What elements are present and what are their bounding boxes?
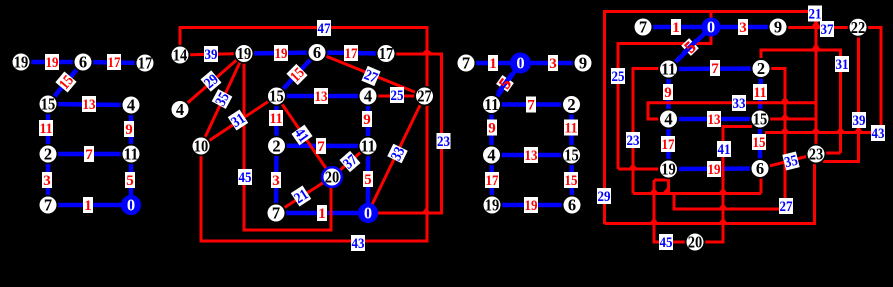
svg-text:6: 6 (313, 43, 321, 62)
svg-text:27: 27 (417, 87, 432, 106)
wire: graph3 blue edge 4-19 (489, 155, 494, 205)
svg-text:43: 43 (872, 126, 885, 142)
graph1 edge label 17 (6-17) (107, 54, 121, 71)
graph2 blue edge label 19 (19-6) (274, 45, 288, 62)
svg-text:19: 19 (275, 46, 288, 62)
graph2 red edge label 45 (238, 169, 252, 186)
graph4 red edge label 35 (782, 152, 800, 172)
node 19 (graph1) (12, 53, 31, 72)
node 2 (graph1) (39, 145, 58, 164)
graph2 red edge label 43 (351, 235, 365, 252)
wire: graph4 red horizontal channel y=132.5 to 15 (765, 131, 881, 134)
wire: graph1 blue edge 11-0 (129, 154, 134, 205)
graph2 blue edge label 9 (4-11) (362, 111, 372, 128)
svg-text:25: 25 (391, 88, 404, 104)
svg-text:9: 9 (363, 112, 371, 128)
wire: graph4 red edge 11 routed (label 23) (633, 69, 659, 194)
graph2 blue edge label 15 (6-15) (286, 64, 308, 86)
wire: graph4 blue edge 4-19 (666, 119, 671, 169)
node 19 (graph2) (235, 44, 254, 63)
svg-text:7: 7 (317, 139, 325, 155)
svg-text:17: 17 (379, 44, 394, 63)
wire: graph4 red edge 22 right, down (label 43) (867, 28, 881, 133)
node 23 (graph4) (807, 145, 826, 164)
node 0 (graph2 root, blue) (359, 204, 377, 223)
svg-text:11: 11 (484, 95, 499, 114)
node 7 (graph2) (267, 204, 286, 223)
wire: graph4 red edge to 20 left (label 45) (654, 180, 686, 242)
wire: graph2 blue edge 11-0 (366, 146, 371, 213)
svg-text:47: 47 (318, 21, 331, 37)
junction arrow graph4 #6 (854, 127, 864, 133)
wire: graph1 blue edge 7-0 (48, 203, 131, 208)
graph4 red edge label 27 (779, 198, 793, 215)
graph4 blue edge label 17 (4-19) (661, 136, 675, 153)
svg-text:20: 20 (325, 168, 340, 187)
node 17 (graph1) (136, 54, 155, 73)
junction arrow graph4 #10 (718, 188, 728, 194)
svg-text:20: 20 (688, 233, 703, 252)
svg-text:1: 1 (672, 20, 680, 36)
node 20 (graph2, blue ring) (322, 167, 342, 187)
svg-text:4: 4 (364, 87, 372, 106)
svg-text:1: 1 (489, 56, 497, 72)
graph4 blue edge label 9 (11-4) (663, 84, 673, 101)
wire: graph4 red edge 4 routed (label 33) (648, 103, 816, 119)
wire: graph4 blue edge 19-6 (669, 166, 761, 171)
wire: graph4 blue edge 15-6 (758, 119, 763, 169)
svg-text:4: 4 (127, 96, 135, 115)
node 10 (graph2) (192, 137, 211, 156)
svg-text:43: 43 (352, 236, 365, 252)
wire: graph4 red riser to 6 (760, 178, 763, 194)
svg-text:7: 7 (44, 196, 52, 215)
node 15 (graph2) (267, 87, 286, 106)
node 11 (graph4) (659, 60, 678, 79)
node 19 (graph3) (483, 196, 502, 215)
node 14 (graph2) (171, 46, 190, 65)
wire: graph1 blue edge 19-6 (21, 60, 83, 65)
svg-text:39: 39 (853, 113, 866, 129)
svg-text:17: 17 (138, 54, 153, 73)
svg-text:5: 5 (126, 173, 134, 189)
graph3 edge label 19 (19-6) (524, 197, 538, 214)
svg-text:19: 19 (708, 162, 721, 178)
svg-text:6: 6 (79, 53, 87, 72)
graph2 red edge label 29 (200, 70, 222, 92)
svg-text:4: 4 (664, 110, 672, 129)
wire: graph2 blue edge 19-6 (244, 53, 317, 54)
node 0 (graph3 root, blue) (511, 53, 530, 72)
junction arrow graph4 #8 (649, 188, 659, 194)
wire: graph4 blue edge 2-15 (760, 69, 761, 120)
svg-text:2: 2 (757, 59, 765, 78)
graph1 edge label 13 (15-4) (82, 96, 96, 113)
node 7 (graph3) (457, 54, 476, 73)
graph4 red edge label 41 (717, 141, 731, 158)
wire: graph4 blue edge 0-9 (711, 25, 778, 30)
svg-text:0: 0 (516, 54, 524, 73)
svg-text:13: 13 (708, 112, 721, 128)
svg-text:17: 17 (486, 173, 499, 189)
svg-text:17: 17 (108, 55, 121, 71)
graph1 edge label 1 (7-0) (83, 197, 93, 214)
svg-text:3: 3 (739, 20, 747, 36)
graph2 red edge label 25 (390, 87, 404, 104)
graph4 red edge label 45 (659, 234, 673, 251)
wire: graph2 red edge 17-0 routed right (368, 54, 442, 213)
graph4 blue edge label 3 (0-9) (738, 19, 748, 36)
node 2 (graph2) (267, 136, 286, 155)
wire: graph2 blue edge 7-0 (276, 211, 368, 216)
junction arrow graph4 #4 (811, 127, 821, 133)
svg-text:7: 7 (272, 204, 280, 223)
wire: graph1 blue edge 2-11 (48, 152, 131, 157)
node 4 (graph1) (122, 96, 141, 115)
wire: graph4 red bracket below 19 (654, 180, 669, 194)
svg-text:15: 15 (269, 87, 284, 106)
svg-text:22: 22 (851, 18, 866, 37)
node 9 (graph4) (769, 18, 788, 37)
svg-text:15: 15 (753, 110, 768, 129)
svg-text:4: 4 (176, 100, 184, 119)
svg-text:7: 7 (711, 61, 719, 77)
svg-text:11: 11 (661, 60, 676, 79)
wire: graph4 red channel y=193.5 (633, 192, 761, 195)
node 9 (graph3) (574, 54, 593, 73)
wire: graph4 red edge 6-23 diagonal (label 35) (760, 154, 816, 169)
wire: graph2 red edge 15-20 (277, 96, 333, 177)
svg-text:19: 19 (525, 198, 538, 214)
svg-text:13: 13 (83, 97, 96, 113)
graph2 blue edge label 7 (2-11) (316, 138, 326, 155)
junction arrow graph4 #5 (836, 127, 846, 133)
wire: graph2 blue edge 15-2 (274, 96, 279, 146)
wire: graph2 red edge 19-20 routed (244, 54, 331, 230)
graph1 edge label 7 (2-11) (84, 146, 94, 163)
svg-text:7: 7 (527, 98, 535, 114)
svg-text:19: 19 (485, 196, 500, 215)
wire: graph2 red edge 10-27 routed bottom (label 43) (201, 96, 427, 241)
svg-text:1: 1 (318, 206, 326, 222)
junction arrow graph4 #1 (780, 97, 790, 103)
graph3 edge label 5 (0-11) (495, 74, 515, 93)
svg-text:23: 23 (627, 133, 640, 149)
svg-text:31: 31 (836, 57, 849, 73)
wire: graph2 blue edge 2-7 (274, 146, 279, 213)
wire: graph3 blue edge 19-6 (492, 203, 572, 208)
node 6 (graph3) (563, 196, 582, 215)
svg-text:6: 6 (756, 159, 764, 178)
graph4 red edge label 37 (820, 21, 834, 38)
graph3 edge label 3 (0-9) (548, 55, 558, 72)
wire: graph3 blue edge 0-11 (492, 63, 521, 105)
node 7 (graph1) (39, 196, 58, 215)
svg-text:9: 9 (125, 122, 133, 138)
graph3 edge label 7 (11-2) (526, 97, 536, 114)
wire: graph2 red edge 19-10 (201, 54, 244, 147)
graph4 blue edge label 15 (15-6) (752, 134, 766, 151)
wire: graph2 red edge 14-19 (180, 54, 244, 56)
svg-text:7: 7 (639, 18, 647, 37)
svg-text:17: 17 (662, 137, 675, 153)
svg-text:25: 25 (612, 69, 625, 85)
svg-text:11: 11 (361, 137, 376, 156)
svg-text:3: 3 (549, 56, 557, 72)
wire: graph1 blue edge 6-17 (83, 62, 145, 63)
junction arrow graph4 #2 (780, 113, 790, 119)
node 15 (graph3) (562, 146, 581, 165)
svg-text:7: 7 (462, 54, 470, 73)
wire: graph3 blue edge 11-2 (492, 102, 572, 107)
wire: graph4 red edge 23 bottom channel (605, 163, 815, 224)
svg-text:45: 45 (239, 170, 252, 186)
svg-text:11: 11 (565, 121, 578, 137)
graph2 red edge label 27 (361, 66, 381, 87)
wire: graph4 blue edge 7-0 (643, 25, 711, 30)
graph3 edge label 15 (15-6) (564, 172, 578, 189)
wire: graph1 blue edge 2-7 (46, 154, 51, 205)
graph3 edge label 9 (11-4) (487, 120, 497, 137)
node 22 (graph4) (849, 18, 868, 37)
svg-text:9: 9 (774, 18, 782, 37)
graph4 red edge label 31 (835, 56, 849, 73)
graph2 red edge label 21 (291, 185, 312, 207)
wire: graph3 blue edge 4-15 (492, 153, 572, 158)
svg-text:21: 21 (809, 7, 822, 23)
wire: graph2 blue edge 6-17 (317, 53, 386, 54)
wire: graph2 blue edge 2-11 (277, 144, 369, 149)
graph2 red edge label 23 (437, 133, 451, 150)
graph3 edge label 13 (4-15) (524, 147, 538, 164)
graph4 blue edge label 7 (11-2) (710, 60, 720, 77)
graph1 edge label 3 (2-7) (42, 172, 52, 189)
node 20 (graph4) (686, 233, 705, 252)
wire: graph4 red vertical x=785 from 2 (label 27) (770, 69, 785, 210)
svg-text:13: 13 (525, 148, 538, 164)
node 6 (graph1) (74, 53, 93, 72)
graph3 edge label 17 (4-19) (485, 172, 499, 189)
graph4 blue edge label 11 (2-15) (753, 84, 767, 101)
junction arrow graph4 on y=50 line (811, 43, 822, 52)
graph4 red edge label 29 (597, 188, 611, 205)
wire: graph4 red edge 15 right (770, 118, 816, 121)
svg-text:23: 23 (437, 134, 450, 150)
svg-text:10: 10 (194, 137, 209, 156)
node 6 (graph2) (308, 43, 327, 62)
wire: graph2 blue edge 15-4 (277, 94, 369, 99)
node 11 (graph1) (122, 145, 141, 164)
graph1 edge label 11 (15-2) (39, 120, 53, 137)
wire: graph2 red edge 19-4 (outer) (180, 54, 244, 110)
svg-text:11: 11 (124, 145, 139, 164)
node 4 (graph3) (482, 146, 501, 165)
graph4 blue edge label 1 (7-0) (671, 19, 681, 36)
graph2 blue edge label 13 (15-4) (314, 88, 328, 105)
graph2 blue edge label 17 (6-17) (344, 45, 358, 62)
node 4 (graph2) (359, 87, 378, 106)
svg-text:41: 41 (718, 142, 731, 158)
graph1 edge label 9 (4-11) (124, 121, 134, 138)
wire: graph2 blue edge 6-15 (277, 53, 318, 97)
svg-text:19: 19 (14, 53, 29, 72)
graph4 red edge label 39 (852, 112, 866, 129)
wire: graph2 red edge 4-27 (368, 95, 425, 98)
graph2 red edge label 33 (387, 144, 408, 164)
node 11 (graph2) (359, 137, 378, 156)
graph2 red edge label 39 (204, 46, 218, 63)
graph2 red edge label 35 (212, 89, 234, 109)
svg-text:39: 39 (205, 47, 218, 63)
node 17 (graph2) (377, 44, 396, 63)
svg-text:0: 0 (364, 204, 372, 223)
wire: graph4 red channel left/top (labels 29,21) (605, 12, 817, 225)
wire: graph4 red edge 22 down to 23 (label 39) (823, 36, 859, 162)
svg-text:1: 1 (84, 198, 92, 214)
graph4 blue edge label 13 (4-15) (707, 111, 721, 128)
node 2 (graph3) (562, 95, 581, 114)
graph1 edge label 15 (6-15) (55, 71, 77, 93)
junction arrow graph4 #13 (718, 218, 728, 224)
wire: graph4 red edge from 2 up right down (label 31) (761, 50, 841, 153)
wire: graph3 blue edge 0-9 (521, 61, 584, 66)
svg-text:6: 6 (568, 196, 576, 215)
node 27 (graph2) (415, 87, 434, 106)
svg-text:9: 9 (488, 121, 496, 137)
svg-text:15: 15 (565, 173, 578, 189)
wire: graph1 blue edge 15-2 (46, 104, 51, 154)
svg-text:45: 45 (660, 235, 673, 251)
wire: graph4 blue edge 4-15 (669, 117, 761, 122)
graph4 red edge label 21 (808, 6, 822, 23)
wire: graph4 red edge 0 routed (label 25) (618, 12, 711, 170)
wire: graph2 red edge 0-27 (368, 96, 425, 213)
node 15 (graph1) (39, 95, 58, 114)
node 15 (graph4) (751, 110, 770, 129)
junction arrow graph4 #3 (780, 127, 790, 133)
svg-text:3: 3 (272, 173, 280, 189)
wire: graph1 blue edge 6-15 (48, 62, 83, 104)
wire: graph4 blue edge 0-11 (669, 27, 712, 69)
graph4 red edge label 25 (611, 68, 625, 85)
graph2 blue edge label 1 (7-0) (317, 205, 327, 222)
junction arrow on 0 left of riser (graph2) (421, 208, 431, 214)
svg-text:29: 29 (598, 189, 611, 205)
svg-text:15: 15 (753, 135, 766, 151)
svg-text:19: 19 (661, 160, 676, 179)
svg-text:9: 9 (579, 54, 587, 73)
svg-text:2: 2 (567, 95, 575, 114)
wire: graph4 red approach into 19 (618, 168, 659, 171)
node 0 (graph4 root, blue) (702, 18, 719, 37)
wire: graph4 red edge 9-22 (label 37) (787, 26, 849, 29)
wire: graph2 blue edge 4-11 (366, 96, 371, 146)
wire: graph1 blue edge 4-11 (129, 105, 134, 154)
graph2 blue edge label 11 (15-2) (269, 110, 283, 127)
wire: graph4 blue edge 11-4 (666, 69, 671, 119)
wire: graph2 red edge 15-10 (201, 96, 277, 146)
svg-text:33: 33 (733, 96, 746, 112)
junction arrow graph4 #7 (628, 163, 638, 169)
svg-text:9: 9 (664, 85, 672, 101)
wire: graph2 red edge 6-27 (317, 53, 425, 97)
svg-text:15: 15 (41, 95, 56, 114)
svg-text:7: 7 (85, 147, 93, 163)
svg-text:15: 15 (564, 146, 579, 165)
svg-text:0: 0 (707, 18, 715, 37)
graph3 edge label 1 (7-0) (488, 55, 498, 72)
graph4 red edge label 33 (732, 95, 746, 112)
svg-text:11: 11 (754, 85, 767, 101)
wire: graph3 blue edge 11-4 (489, 105, 494, 156)
junction arrow graph4 below label 21 (811, 20, 822, 29)
svg-text:37: 37 (821, 22, 834, 38)
graph1 edge label 19 (19-6) (45, 54, 59, 71)
wire: graph2 red edge 20-11 (332, 146, 368, 177)
graph2 red edge label 31 (228, 109, 249, 131)
wire: graph4 blue edge 11-2 (669, 66, 762, 71)
wire: graph4 red vertical from 15 to 20 right (label 41) (704, 127, 752, 243)
node 2 (graph4) (752, 59, 771, 78)
svg-text:2: 2 (44, 145, 52, 164)
svg-text:11: 11 (40, 121, 53, 137)
svg-text:3: 3 (43, 173, 51, 189)
graph4 blue edge label 19 (19-6) (707, 161, 721, 178)
svg-text:5: 5 (364, 172, 372, 188)
junction arrow graph4 #9 (662, 188, 672, 194)
graph2 red edge label 47 (317, 20, 331, 37)
graph4 red edge label 43 (871, 125, 885, 142)
graph1 edge label 5 (11-0) (125, 172, 135, 189)
graph3 edge label 11 (2-15) (564, 120, 578, 137)
svg-text:2: 2 (272, 136, 280, 155)
svg-text:17: 17 (345, 46, 358, 62)
graph2 blue edge label 3 (2-7) (271, 172, 281, 189)
wire: graph1 blue edge 15-4 (48, 104, 131, 105)
svg-text:11: 11 (270, 111, 283, 127)
svg-text:4: 4 (487, 146, 495, 165)
graph4 blue edge label 5 (0-11) (680, 37, 699, 56)
junction arrow graph4 #11 (718, 203, 728, 209)
svg-text:14: 14 (173, 46, 188, 65)
wire: graph3 blue edge 7-0 (466, 61, 521, 66)
node 4 (graph2) (171, 100, 190, 119)
node 7 (graph4) (634, 18, 653, 37)
graph2 red edge label 37 (339, 151, 361, 173)
graph2 blue edge label 5 (11-0) (363, 171, 373, 188)
node 11 (graph3) (482, 95, 501, 114)
node 19 (graph4) (659, 160, 678, 179)
svg-text:27: 27 (780, 199, 793, 215)
svg-text:23: 23 (809, 145, 824, 164)
junction arrow graph4 #12 (649, 218, 659, 224)
junction arrow at crossing 27-line/17-line (graph2) (422, 49, 433, 54)
node 6 (graph4) (751, 159, 770, 178)
graph2 red edge label 41 (291, 125, 313, 146)
svg-text:19: 19 (46, 55, 59, 71)
svg-text:19: 19 (237, 44, 252, 63)
graph4 red edge label 23 (626, 132, 640, 149)
node 0 (graph1 root, blue) (122, 196, 140, 215)
wire: graph4 red link 23 upper right (824, 152, 841, 155)
wire: graph4 red branch to 27-line (674, 194, 785, 210)
wire: graph2 red edge 14-27 routed top (180, 28, 427, 97)
node 4 (graph4) (659, 110, 678, 129)
wire: graph2 red edge 7-20 (276, 177, 332, 213)
svg-text:13: 13 (315, 89, 328, 105)
wire: graph3 blue edge 2-15 (569, 105, 574, 156)
wire: graph3 blue edge 15-6 (569, 155, 574, 205)
